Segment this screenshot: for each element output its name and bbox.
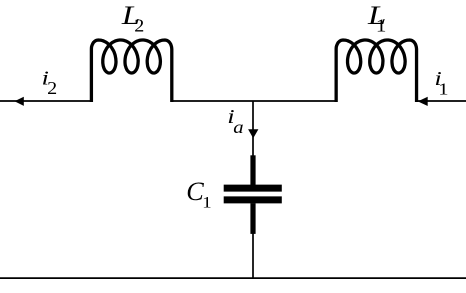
inductor L2 xyxy=(91,40,171,102)
wire middle vertical (junction to capacitor) xyxy=(252,101,254,156)
svg-text:2: 2 xyxy=(134,17,144,36)
svg-text:2: 2 xyxy=(47,79,57,98)
capacitor C1 top plate xyxy=(224,185,282,192)
wire top-middle segment xyxy=(172,100,336,102)
arrowhead current ia (pointing down) xyxy=(248,129,258,138)
svg-text:1: 1 xyxy=(376,17,386,36)
inductor L1 xyxy=(336,40,416,102)
svg-text:1: 1 xyxy=(438,80,448,99)
arrowhead current i1 (pointing left) xyxy=(418,97,428,106)
svg-text:1: 1 xyxy=(202,193,212,211)
arrowhead current i2 (pointing left) xyxy=(15,97,24,106)
wire capacitor to bottom rail xyxy=(252,234,254,279)
capacitor C1 bottom lead (thick) xyxy=(250,203,255,234)
wire top-left segment xyxy=(0,100,91,102)
svg-text:a: a xyxy=(233,118,243,137)
wire top-right segment xyxy=(417,100,466,102)
wire bottom rail xyxy=(0,277,466,279)
capacitor C1 top lead (thick) xyxy=(250,155,255,185)
capacitor C1 bottom plate xyxy=(224,196,282,203)
